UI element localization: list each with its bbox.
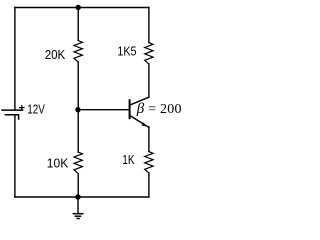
svg-text:β = 200: β = 200 — [136, 101, 182, 117]
svg-text:10K: 10K — [47, 156, 69, 171]
svg-text:20K: 20K — [45, 47, 66, 62]
svg-text:12V: 12V — [27, 103, 45, 117]
svg-text:1K: 1K — [122, 152, 135, 167]
svg-text:1K5: 1K5 — [117, 43, 136, 58]
